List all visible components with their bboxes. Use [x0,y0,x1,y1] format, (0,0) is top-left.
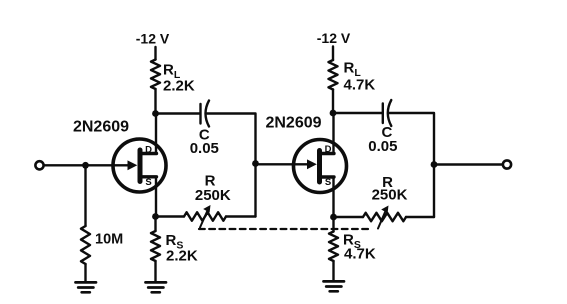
svg-text:2N2609: 2N2609 [265,115,321,132]
resistor RS1 2.2K [151,231,160,261]
potentiometer R2 250K [363,213,406,221]
transistor Q2 2N2609 [294,140,347,193]
svg-text:2.2K: 2.2K [163,78,195,95]
svg-text:S: S [145,177,151,188]
wire: node D down to Q2 drain [332,113,334,154]
transistor Q1 2N2609 [113,139,166,192]
svg-text:2.2K: 2.2K [166,248,198,265]
wire: pot R2 to node E column [406,216,434,218]
wire: C1 right plate to node B corner [207,114,256,164]
node G1 junction (input node) [82,162,89,169]
svg-text:-12 V: -12 V [136,31,170,47]
node F junction (Q2 source node) [330,214,337,221]
resistor RS2 4.7K [329,232,338,261]
potentiometer R1 250K [184,212,226,220]
output terminal [503,160,511,168]
wire: node A to C1 left plate [156,112,200,114]
wire: RS2 to ground [332,261,334,281]
wiper arrow R1 [200,205,211,228]
svg-text:0.05: 0.05 [368,138,397,155]
node D junction (Q2 drain node) [330,110,337,117]
node A junction (Q1 drain node) [152,110,159,117]
svg-text:4.7K: 4.7K [344,246,376,263]
wire: node C to RS1 [154,217,156,232]
wire: node E down to pot R2 [433,165,435,218]
svg-text:S: S [325,177,331,188]
wire: RL1 to drain node A [154,89,156,114]
svg-text:250K: 250K [195,187,231,204]
wire: node E to output terminal [434,163,503,165]
svg-text:2N2609: 2N2609 [73,119,129,136]
gang dashed link R1-R2 [199,228,371,230]
wire: 10M to ground [84,264,86,282]
wire: -12V stub to RL2 [332,47,334,61]
ground (input bias) [76,282,97,292]
wire: node D to C2 left plate [333,112,382,114]
wire: -12V stub to RL1 [154,47,156,60]
wire: node A down to Q1 drain [155,114,157,154]
wire: Q2 source down to node F [332,177,334,217]
resistor RL1 2.2K [151,60,160,89]
wire: node B down to pot R1 right end [254,164,256,217]
wire: node F to pot R2 [334,216,364,218]
wire: RL2 to node D [332,90,334,114]
wire: node F to RS2 [332,217,334,232]
node E junction (output node) [431,161,438,168]
wire: node B to Q2 gate [256,163,309,165]
resistor 10M [81,226,90,264]
wire: input terminal to gate node [44,164,129,166]
wire: node C to pot R1 [156,215,185,217]
svg-text:250K: 250K [372,187,408,204]
node B junction (interstage node) [252,160,259,167]
ground (Q2 source) [324,281,345,291]
svg-text:D: D [325,144,332,155]
svg-text:4.7K: 4.7K [344,77,376,94]
node C junction (Q1 source node) [152,213,159,220]
svg-text:0.05: 0.05 [190,140,219,157]
wire: C2 right plate to node E corner [389,113,434,165]
capacitor C2 0.05 [383,100,392,126]
wire: Q1 source down to node C [155,177,157,217]
resistor RL2 4.7K [329,60,338,89]
wire: input node down to 10M [84,165,86,226]
input terminal [35,161,43,169]
wire: pot R1 to node B column [226,215,256,217]
capacitor C1 0.05 [201,101,210,127]
svg-text:-12 V: -12 V [317,30,351,46]
svg-text:D: D [145,144,152,155]
svg-text:10M: 10M [95,232,123,248]
ground (Q1 source) [146,282,167,292]
wiper arrow R2 [378,206,389,229]
wire: RS1 to ground [154,261,156,282]
